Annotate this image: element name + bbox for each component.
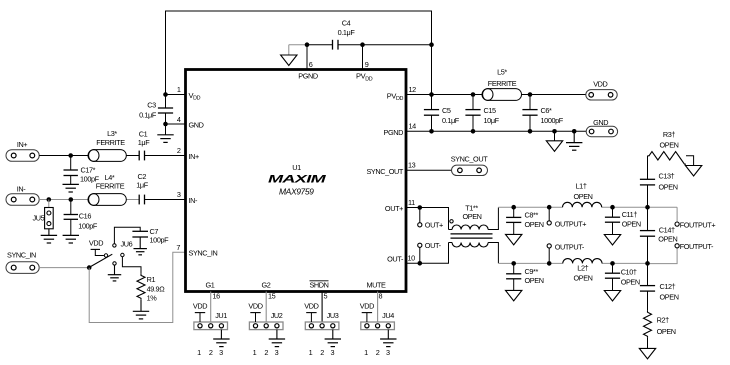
svg-text:10μF: 10μF	[484, 116, 500, 125]
svg-text:100pF: 100pF	[78, 222, 98, 231]
svg-text:3: 3	[330, 348, 334, 357]
svg-text:3: 3	[219, 348, 223, 357]
svg-text:OPEN: OPEN	[660, 293, 679, 302]
svg-text:11: 11	[408, 198, 415, 207]
svg-text:9: 9	[365, 60, 369, 69]
svg-text:JU2: JU2	[271, 311, 283, 320]
svg-text:FERRITE: FERRITE	[96, 182, 125, 191]
svg-text:OPEN: OPEN	[659, 140, 678, 149]
svg-text:1: 1	[177, 85, 181, 94]
svg-text:3: 3	[177, 190, 181, 199]
svg-text:2: 2	[177, 146, 181, 155]
svg-text:U1: U1	[292, 163, 301, 172]
svg-text:16: 16	[213, 292, 221, 301]
svg-text:OPEN: OPEN	[525, 276, 544, 285]
svg-text:1000pF: 1000pF	[541, 116, 564, 125]
svg-text:JU6: JU6	[121, 240, 133, 249]
svg-text:1%: 1%	[147, 293, 158, 302]
svg-text:OUTPUT+: OUTPUT+	[555, 220, 587, 229]
svg-text:FERRITE: FERRITE	[488, 79, 517, 88]
svg-text:7: 7	[176, 243, 180, 252]
svg-text:C3: C3	[147, 101, 156, 110]
svg-text:OUTPUT-: OUTPUT-	[555, 242, 585, 251]
svg-text:2: 2	[264, 348, 268, 357]
svg-text:3: 3	[275, 348, 279, 357]
svg-text:JU3: JU3	[327, 311, 339, 320]
svg-text:C5: C5	[442, 106, 451, 115]
svg-text:2: 2	[320, 348, 324, 357]
svg-text:C8**: C8**	[525, 211, 539, 220]
svg-text:OPEN: OPEN	[573, 192, 592, 201]
svg-text:R2†: R2†	[657, 316, 670, 325]
svg-text:OPEN: OPEN	[657, 327, 676, 336]
svg-text:OUT+: OUT+	[425, 221, 443, 230]
svg-text:6: 6	[309, 60, 313, 69]
svg-text:8: 8	[379, 292, 383, 301]
svg-text:1μF: 1μF	[136, 181, 148, 190]
svg-text:OUT-: OUT-	[425, 241, 442, 250]
svg-text:C1: C1	[139, 130, 148, 139]
svg-text:C14†: C14†	[659, 225, 675, 234]
svg-text:OPEN: OPEN	[525, 220, 544, 229]
svg-text:C10†: C10†	[621, 268, 637, 277]
svg-text:OPEN: OPEN	[622, 220, 641, 229]
svg-text:1: 1	[364, 348, 368, 357]
svg-text:R1: R1	[147, 275, 156, 284]
svg-text:OPEN: OPEN	[621, 278, 640, 287]
svg-text:SYNC_OUT: SYNC_OUT	[451, 155, 488, 164]
svg-text:OPEN: OPEN	[573, 273, 592, 282]
svg-text:10: 10	[408, 253, 416, 262]
svg-text:OPEN: OPEN	[462, 212, 481, 221]
svg-text:JU4: JU4	[382, 311, 394, 320]
svg-text:VDD: VDD	[89, 239, 103, 248]
svg-text:T1**: T1**	[465, 204, 478, 213]
svg-text:1: 1	[253, 348, 257, 357]
svg-text:C11†: C11†	[622, 210, 638, 219]
svg-text:1: 1	[197, 348, 201, 357]
svg-text:0.1μF: 0.1μF	[442, 116, 460, 125]
svg-text:2: 2	[209, 348, 213, 357]
svg-text:L3*: L3*	[107, 129, 117, 138]
svg-text:1: 1	[309, 348, 313, 357]
svg-text:49.9Ω: 49.9Ω	[147, 285, 166, 294]
svg-text:C4: C4	[342, 18, 351, 27]
svg-text:IN-: IN-	[17, 184, 26, 193]
svg-text:1μF: 1μF	[138, 138, 150, 147]
svg-text:SYNC_IN: SYNC_IN	[189, 249, 218, 258]
svg-text:C12†: C12†	[660, 282, 676, 291]
svg-text:VDD: VDD	[304, 302, 318, 311]
svg-text:VDD: VDD	[248, 302, 262, 311]
svg-text:IN-: IN-	[189, 196, 198, 205]
svg-text:MAX9759: MAX9759	[279, 186, 314, 196]
svg-text:C9**: C9**	[525, 267, 539, 276]
svg-text:OPEN: OPEN	[658, 234, 677, 243]
svg-text:4: 4	[177, 115, 181, 124]
svg-text:G2: G2	[262, 281, 271, 290]
svg-text:G1: G1	[206, 281, 215, 290]
svg-text:C16: C16	[79, 212, 92, 221]
svg-text:C6*: C6*	[541, 106, 553, 115]
svg-text:FERRITE: FERRITE	[96, 138, 125, 147]
svg-text:MUTE: MUTE	[366, 281, 386, 290]
svg-text:PGND: PGND	[298, 72, 318, 81]
svg-text:VDD: VDD	[593, 80, 607, 89]
svg-text:GND: GND	[593, 118, 608, 127]
svg-text:C13†: C13†	[659, 172, 675, 181]
svg-text:IN+: IN+	[17, 140, 27, 149]
svg-text:JU1: JU1	[215, 311, 227, 320]
svg-text:L5*: L5*	[497, 67, 507, 76]
svg-text:FOUTPUT+: FOUTPUT+	[680, 220, 716, 229]
svg-text:3: 3	[386, 348, 390, 357]
svg-text:IN+: IN+	[189, 152, 199, 161]
svg-text:C15: C15	[484, 106, 497, 115]
svg-text:VDD: VDD	[193, 302, 207, 311]
svg-text:15: 15	[268, 292, 276, 301]
svg-text:JU5: JU5	[33, 214, 45, 223]
svg-text:GND: GND	[189, 120, 204, 129]
svg-text:VDD: VDD	[360, 302, 374, 311]
svg-text:12: 12	[409, 85, 417, 94]
svg-text:FOUTPUT-: FOUTPUT-	[680, 242, 714, 251]
svg-text:C17*: C17*	[81, 166, 96, 175]
svg-text:R3†: R3†	[663, 130, 676, 139]
svg-text:PGND: PGND	[384, 128, 404, 137]
svg-text:OUT+: OUT+	[385, 204, 403, 213]
svg-text:14: 14	[409, 121, 417, 130]
svg-text:MAXIM: MAXIM	[268, 173, 327, 185]
svg-text:SHDN: SHDN	[309, 281, 328, 290]
svg-text:L2†: L2†	[577, 264, 588, 273]
svg-text:2: 2	[376, 348, 380, 357]
svg-text:100pF: 100pF	[150, 236, 170, 245]
svg-text:OPEN: OPEN	[659, 183, 678, 192]
svg-text:SYNC_IN: SYNC_IN	[7, 251, 36, 260]
svg-text:SYNC_OUT: SYNC_OUT	[366, 167, 403, 176]
svg-text:13: 13	[408, 161, 416, 170]
svg-text:5: 5	[324, 292, 328, 301]
svg-text:L1†: L1†	[576, 182, 587, 191]
svg-text:0.1μF: 0.1μF	[139, 110, 157, 119]
svg-text:L4*: L4*	[105, 173, 115, 182]
svg-text:OUT-: OUT-	[387, 255, 404, 264]
svg-text:0.1μF: 0.1μF	[338, 28, 356, 37]
